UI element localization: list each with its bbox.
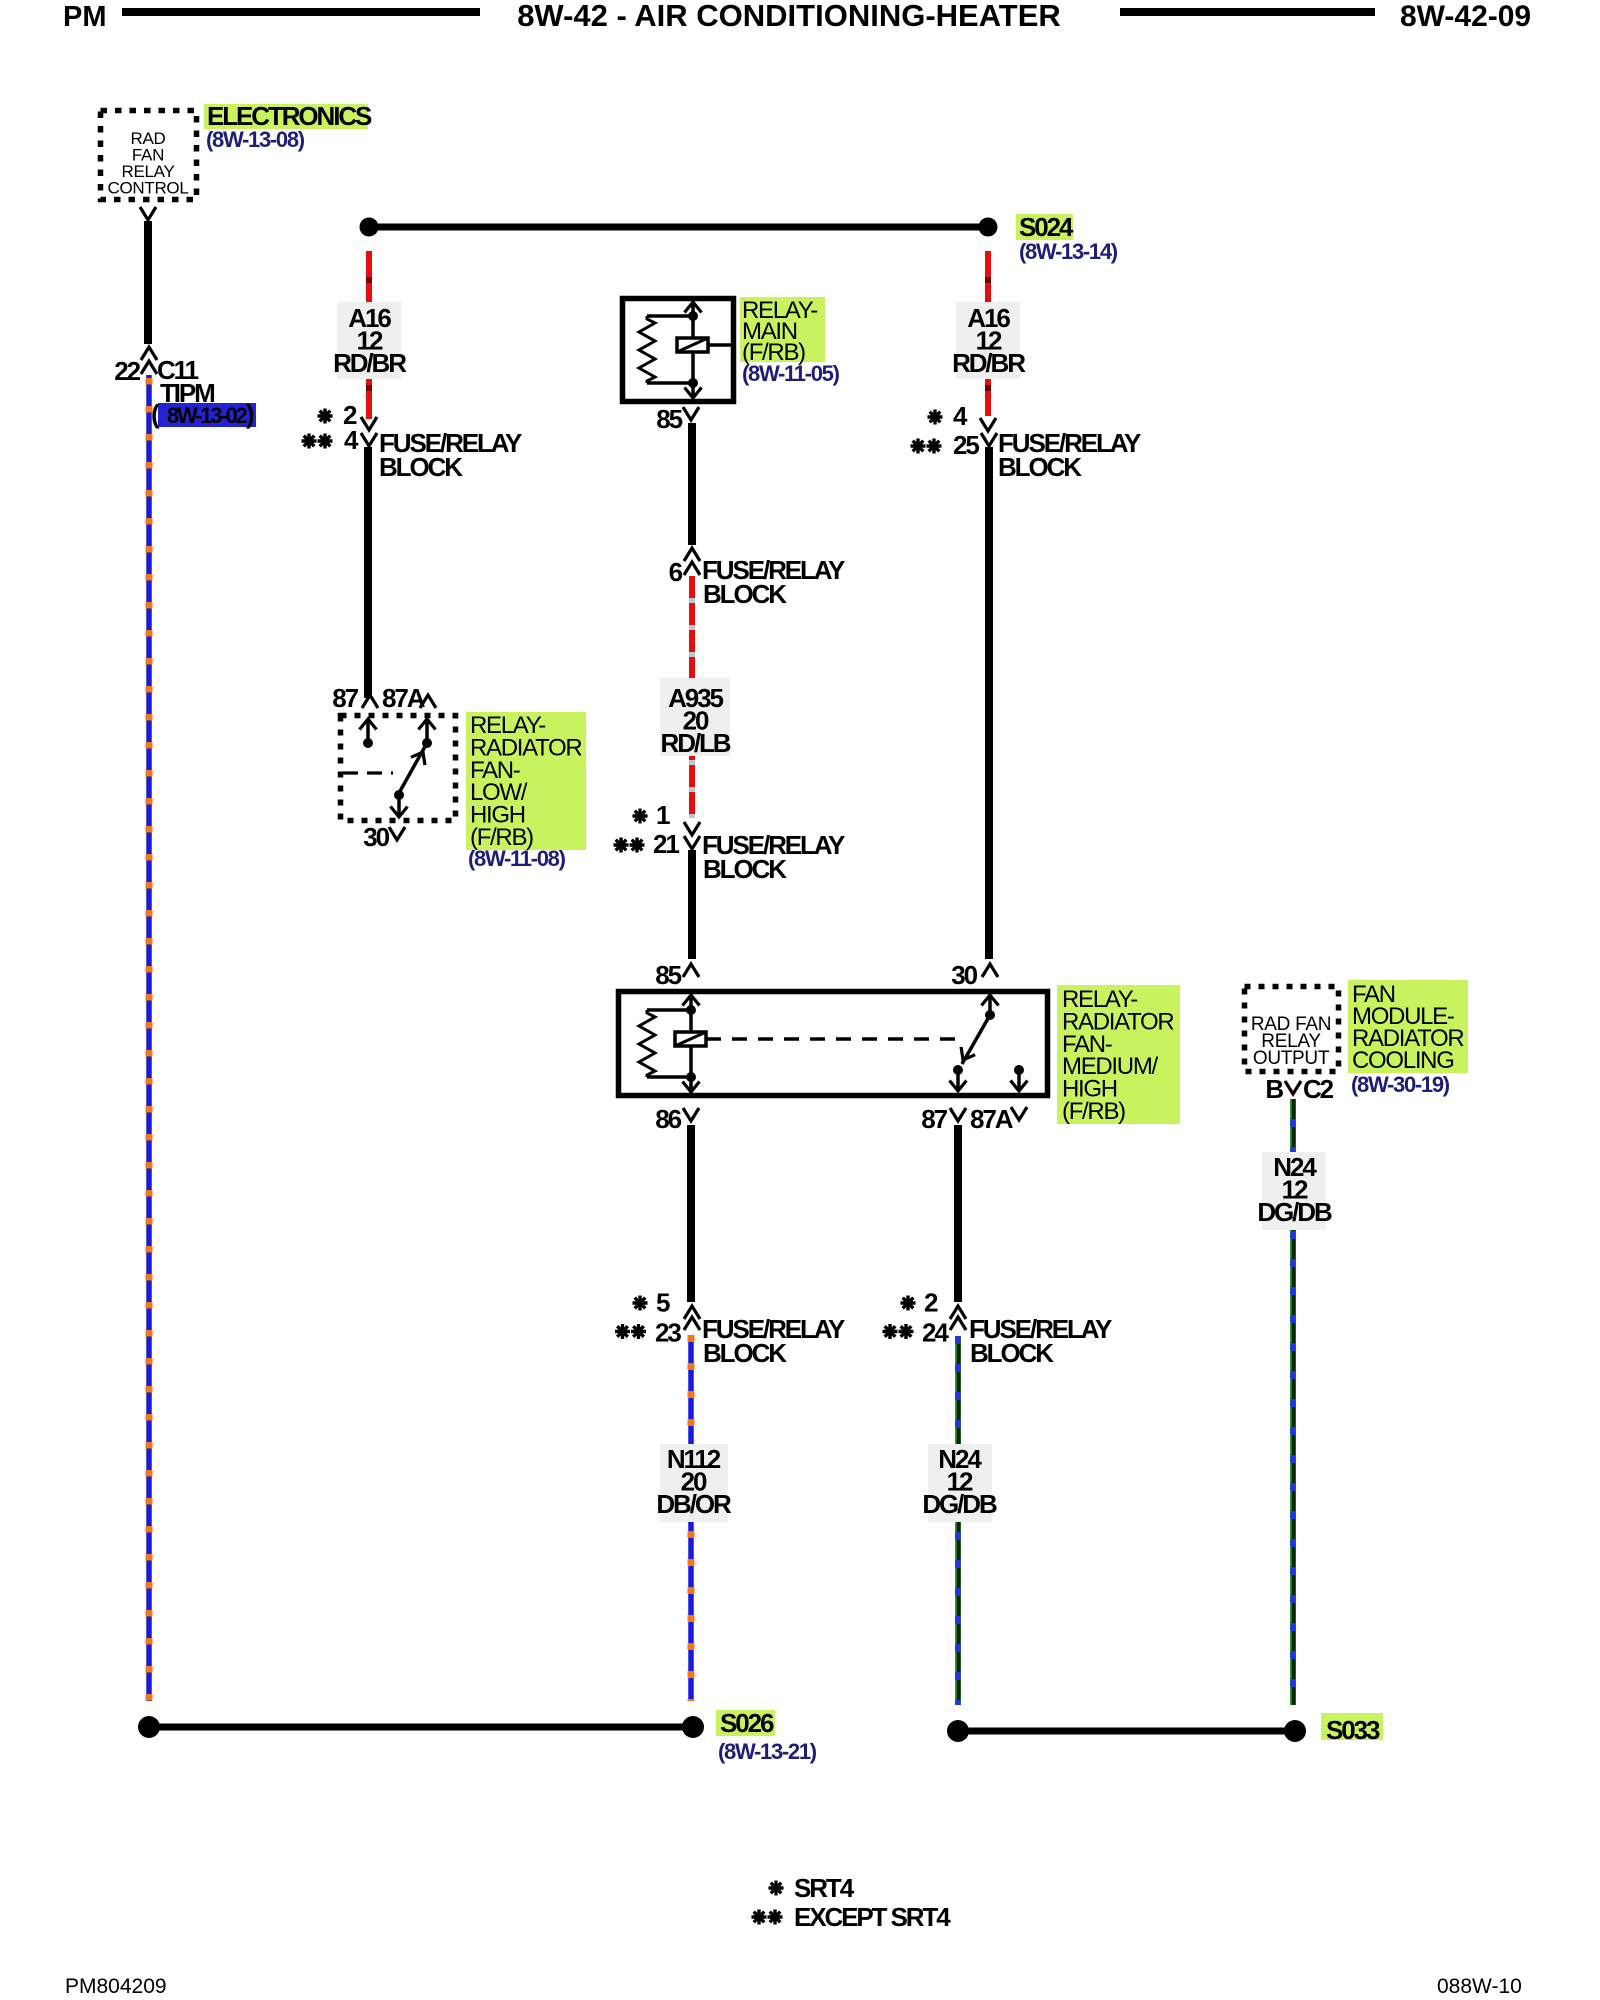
svg-text:BLOCK: BLOCK: [998, 452, 1082, 482]
svg-text:S026: S026: [720, 1708, 774, 1738]
svg-text:87A: 87A: [382, 683, 426, 713]
svg-text:BLOCK: BLOCK: [379, 452, 463, 482]
svg-text:85: 85: [656, 404, 682, 434]
svg-text:(8W-11-08): (8W-11-08): [468, 846, 566, 871]
svg-text:BLOCK: BLOCK: [703, 579, 787, 609]
svg-text:5: 5: [656, 1288, 670, 1318]
svg-text:(8W-13-08): (8W-13-08): [206, 127, 305, 152]
svg-text:30: 30: [363, 822, 389, 852]
svg-text:COOLING: COOLING: [1352, 1047, 1454, 1074]
svg-text:24: 24: [922, 1318, 949, 1348]
svg-text:21: 21: [653, 829, 679, 859]
svg-text:23: 23: [655, 1318, 681, 1348]
svg-text:BLOCK: BLOCK: [703, 854, 787, 884]
svg-text:87: 87: [921, 1104, 947, 1134]
svg-text:1: 1: [656, 800, 670, 830]
svg-text:86: 86: [655, 1104, 681, 1134]
svg-text:PM: PM: [63, 1, 107, 33]
svg-text:CONTROL: CONTROL: [107, 179, 188, 198]
svg-text:BLOCK: BLOCK: [703, 1338, 787, 1368]
svg-text:PM804209: PM804209: [65, 1975, 167, 1998]
svg-text:8W-42 - AIR CONDITIONING-HEATE: 8W-42 - AIR CONDITIONING-HEATER: [517, 0, 1061, 33]
svg-text:(8W-30-19): (8W-30-19): [1351, 1072, 1450, 1097]
svg-text:8W-42-09: 8W-42-09: [1400, 0, 1531, 33]
svg-text:RD/BR: RD/BR: [333, 348, 407, 378]
svg-text:BLOCK: BLOCK: [970, 1338, 1054, 1368]
svg-text:B: B: [1265, 1074, 1283, 1104]
svg-text:DG/DB: DG/DB: [1257, 1197, 1332, 1227]
svg-text:(8W-13-14): (8W-13-14): [1019, 239, 1118, 264]
svg-text:(8W-11-05): (8W-11-05): [742, 361, 840, 386]
svg-text:088W-10: 088W-10: [1437, 1975, 1522, 1998]
svg-text:S033: S033: [1326, 1715, 1380, 1745]
svg-text:SRT4: SRT4: [794, 1873, 855, 1903]
svg-text:25: 25: [953, 430, 979, 460]
svg-text:(F/RB): (F/RB): [1062, 1098, 1125, 1125]
svg-text:6: 6: [669, 557, 683, 587]
svg-text:EXCEPT SRT4: EXCEPT SRT4: [794, 1902, 951, 1932]
svg-text:85: 85: [655, 960, 681, 990]
svg-text:RD/LB: RD/LB: [661, 728, 731, 758]
svg-text:30: 30: [951, 960, 977, 990]
svg-text:8W-13-02: 8W-13-02: [167, 403, 248, 428]
svg-text:S024: S024: [1019, 212, 1074, 242]
svg-text:DG/DB: DG/DB: [922, 1489, 997, 1519]
svg-text:22: 22: [114, 356, 140, 386]
svg-text:RD/BR: RD/BR: [952, 348, 1026, 378]
svg-text:C2: C2: [1303, 1074, 1334, 1104]
svg-text:(8W-13-21): (8W-13-21): [718, 1739, 817, 1764]
svg-text:2: 2: [924, 1288, 938, 1318]
svg-text:87A: 87A: [970, 1104, 1014, 1134]
svg-text:87: 87: [332, 683, 358, 713]
svg-text:DB/OR: DB/OR: [656, 1489, 732, 1519]
svg-text:OUTPUT: OUTPUT: [1253, 1048, 1330, 1069]
